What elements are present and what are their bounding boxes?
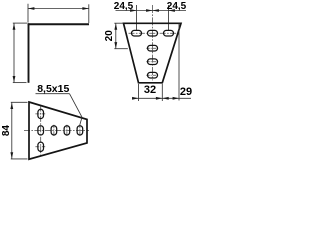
slot hole C-mid (top row) — [148, 30, 158, 36]
slot hole B1 (top of column) 8.5x15 vertical — [38, 109, 44, 118]
wire: extension line B x=162.3 (32-dim right) — [161, 84, 163, 101]
svg-text:24,5: 24,5 — [167, 1, 187, 12]
wire: extension line of left top hole x=136.5 — [136, 5, 138, 31]
centerline tick: hole row 2 vertical — [53, 125, 55, 136]
centerline tick: column hole C2 horizontal — [146, 47, 158, 49]
slot hole C4 (column) — [148, 72, 158, 78]
centerline tick: hole row 3 vertical — [66, 125, 68, 136]
wire: 20 dimension line x=115.2 — [115, 23, 117, 48]
svg-text:84: 84 — [1, 125, 12, 137]
slot hole C-left (top row) horizontal — [132, 30, 142, 36]
svg-text:20: 20 — [104, 30, 115, 42]
plate outline (trapezoid, wide left) — [29, 102, 87, 159]
svg-text:24,5: 24,5 — [114, 1, 134, 12]
slot hole B2 (row 1 / column middle) — [38, 126, 44, 135]
wire: extension line top of 20-dim — [114, 22, 123, 24]
centerline / extension: vertical x=152.5 from dim line to bottom — [152, 5, 154, 80]
wire: extension line C x=178.5 (29-dim right) — [178, 24, 180, 101]
centerline tick: column hole C4 horizontal — [146, 74, 158, 76]
L-profile vertical leg (thick) — [28, 23, 30, 83]
wire: underline of 8,5x15 label — [36, 93, 70, 95]
wire: bottom dimension line y=98.3 — [132, 97, 191, 99]
svg-text:32: 32 — [144, 84, 156, 96]
slot hole C3 (column) — [148, 59, 158, 65]
centerline tick: hole row 4 vertical — [79, 125, 81, 136]
slot hole C-right (top row) — [164, 30, 174, 36]
wire: extension line right of horizontal-dim (vertical, x=88.8) — [88, 4, 90, 23]
wire: 84 dimension line x=11.8 — [11, 103, 13, 159]
centerline: horizontal mid row y=131.2 — [24, 129, 89, 131]
slot hole B3 (bottom of column) — [38, 142, 44, 151]
wire: extension line bottom of vertical-dim (horizontal, y=82.6) — [13, 82, 27, 84]
wire: extension line bottom of 84-dim — [11, 158, 28, 160]
wire: leader from label to slot B6 — [70, 94, 83, 126]
slot hole B4 (row 2) — [51, 126, 57, 135]
wire: extension line left of horizontal-dim (vertical, x=28) — [27, 4, 29, 23]
slot hole B5 (row 3) — [64, 126, 70, 135]
wire: top dimension line y=10.5 — [116, 10, 187, 12]
wire: top dimension line y=8.5 — [28, 8, 89, 10]
wire: extension line top of vertical-dim (horizontal, y=23.1) — [13, 22, 27, 24]
wire: extension line top of 84-dim — [11, 101, 28, 103]
centerline tick: bottom column hole horizontal — [35, 146, 46, 148]
centerline tick: top column hole horizontal — [35, 113, 46, 115]
wire: extension line bottom of 20-dim — [114, 48, 128, 50]
wire: extension line of right top hole x=168.5 — [168, 5, 170, 31]
wire: left dimension line x=14 — [13, 23, 15, 82]
svg-text:29: 29 — [180, 86, 192, 98]
L-profile horizontal leg (thick) — [28, 23, 90, 25]
slot hole C2 (column) — [148, 45, 158, 51]
centerline: horizontal through top hole row y=33.7 — [129, 32, 177, 34]
trapezoid outline — [124, 23, 182, 83]
centerline tick: column hole C3 horizontal — [146, 61, 158, 63]
svg-text:8,5x15: 8,5x15 — [37, 83, 69, 95]
slot hole B6 (row 4, leader target) — [77, 126, 83, 135]
wire: extension line A x=138.5 (32-dim left) — [138, 84, 140, 101]
centerline: vertical left column x=41 — [40, 106, 42, 156]
